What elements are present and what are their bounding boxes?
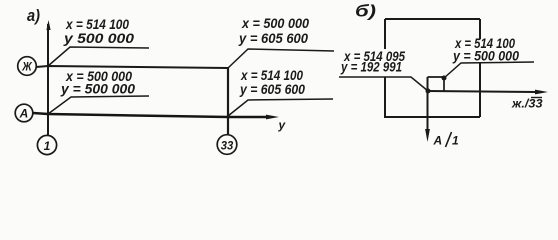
wire big square bottom edge <box>384 116 480 118</box>
wire big square left edge lower <box>384 77 386 117</box>
svg-text:y = 500 000: y = 500 000 <box>60 81 135 97</box>
svg-text:y 500 000: y 500 000 <box>63 30 134 46</box>
wire top edge with tick to node Zh <box>36 66 228 68</box>
label Zh/33 <box>511 97 543 111</box>
svg-text:а): а) <box>27 6 40 25</box>
wire bottom edge and y-axis <box>33 113 266 117</box>
svg-text:А: А <box>433 134 443 148</box>
svg-text:y = 605 600: y = 605 600 <box>238 30 308 46</box>
x-axis arrowhead <box>46 20 50 30</box>
node A circle <box>15 104 33 122</box>
arrowhead Zh/33 <box>535 90 548 95</box>
node station point dot <box>426 89 431 94</box>
wire leader underline block 1 <box>48 47 149 66</box>
svg-text:А: А <box>19 107 29 121</box>
wire big square right edge upper <box>479 19 481 39</box>
svg-text:Ж: Ж <box>21 60 32 74</box>
wire leader underline block 5 <box>339 77 428 91</box>
svg-text:1: 1 <box>44 139 51 153</box>
wire big square right edge lower <box>479 63 481 117</box>
y-axis arrowhead <box>266 115 279 120</box>
node target point dot <box>442 76 447 81</box>
svg-text:б): б) <box>355 2 376 21</box>
arrowhead A/1 <box>425 129 430 142</box>
svg-text:y = 500 000: y = 500 000 <box>452 48 519 64</box>
wire leader underline block 3 <box>228 49 334 68</box>
wire direction A/1 vertical <box>427 77 429 131</box>
svg-text:y = 192 991: y = 192 991 <box>340 59 402 75</box>
wire direction Zh/33 horizontal <box>428 91 536 92</box>
wire leader underline block 4 <box>228 99 333 116</box>
x-axis vertical shaft <box>47 24 49 135</box>
wire leader underline block 6 <box>444 62 534 78</box>
svg-text:y = 605 600: y = 605 600 <box>239 81 305 97</box>
svg-text:y: y <box>278 118 287 132</box>
value label block 3: x=500000 y=605600 <box>238 15 309 46</box>
svg-text:x = 500 000: x = 500 000 <box>241 15 309 31</box>
wire leader underline block 2 <box>48 96 149 114</box>
wire big square top edge <box>385 18 480 20</box>
value label block 1: x=514100 y=500000 <box>63 16 134 46</box>
svg-text:33: 33 <box>221 139 234 153</box>
label A/1 <box>433 132 460 148</box>
svg-text:1: 1 <box>452 134 459 148</box>
wire small offset square top and right <box>428 77 445 91</box>
value label block 4: x=514100 y=605600 <box>239 67 305 97</box>
value label block 5: x=514095 y=192991 <box>340 48 405 75</box>
node 1 circle <box>37 135 56 154</box>
node 33 circle <box>217 135 237 155</box>
svg-text:ж./33: ж./33 <box>511 97 543 111</box>
wire right edge down to node 33 <box>227 68 229 135</box>
value label block 2: x=500000 y=500000 <box>60 68 135 97</box>
wire big square left edge upper <box>384 19 386 49</box>
value label block 6: x=514100 y=500000 <box>452 35 519 64</box>
node Zh circle <box>18 57 37 76</box>
